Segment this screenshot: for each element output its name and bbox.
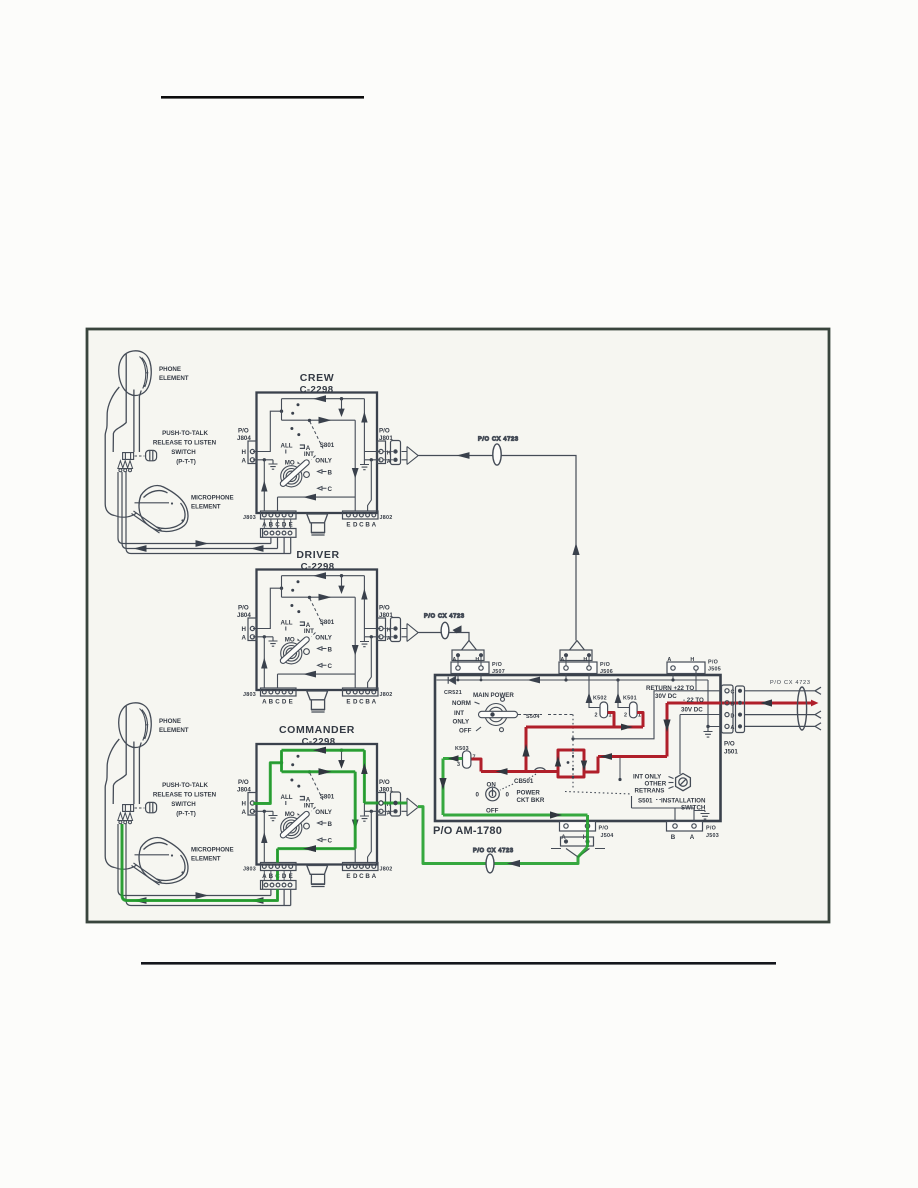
red run K502 K501 xyxy=(526,726,643,729)
svg-text:INT: INT xyxy=(454,710,464,717)
rotary switch S504 xyxy=(479,697,518,731)
svg-text:H: H xyxy=(690,657,694,663)
svg-text:J501: J501 xyxy=(724,749,738,756)
svg-text:30V DC: 30V DC xyxy=(655,693,677,700)
bus wire along top of amplifier xyxy=(437,679,709,681)
amplifier box xyxy=(435,675,721,821)
arrow up commander right riser xyxy=(361,763,367,774)
connector J506 xyxy=(559,662,597,674)
svg-text:3: 3 xyxy=(457,762,460,768)
svg-text:P/O: P/O xyxy=(708,660,718,666)
svg-text:P/O: P/O xyxy=(600,662,610,668)
green riser left xyxy=(442,759,445,816)
svg-text:K502: K502 xyxy=(593,696,607,702)
svg-text:P/O CX 4723: P/O CX 4723 xyxy=(770,680,811,686)
svg-text:RELEASE TO LISTEN: RELEASE TO LISTEN xyxy=(153,791,217,798)
svg-text:A: A xyxy=(560,657,564,663)
S501 riser xyxy=(631,796,633,808)
arrow left K503 stub xyxy=(448,755,459,761)
dots inside contact square xyxy=(567,749,575,779)
green inner right xyxy=(354,772,357,849)
dashed drop from S504 xyxy=(572,715,574,791)
svg-text:J503: J503 xyxy=(706,833,719,839)
svg-text:D: D xyxy=(731,713,735,719)
node J507 taps xyxy=(457,679,460,682)
red contact square xyxy=(558,750,584,777)
arrow right red K run xyxy=(621,724,633,731)
svg-text:B: B xyxy=(731,702,735,708)
wire driver J801 to J507 xyxy=(418,633,470,641)
funnel above J506 xyxy=(570,641,585,651)
svg-text:J507: J507 xyxy=(492,669,505,675)
red square exit xyxy=(584,757,598,773)
cable wires out C xyxy=(745,687,822,694)
green K503 stub xyxy=(443,757,463,760)
arrow down green riser xyxy=(439,778,446,790)
arrow down commander drop xyxy=(338,760,344,768)
svg-text:P/O CX 4723: P/O CX 4723 xyxy=(424,614,465,620)
hex installation switch xyxy=(676,774,691,791)
toggle CB501 xyxy=(486,787,500,801)
green wire H left commander xyxy=(254,763,282,804)
funnel above J507 xyxy=(462,641,477,651)
dotted CB501 to toggle xyxy=(500,784,513,790)
red arrowhead out xyxy=(811,700,819,707)
svg-text:A: A xyxy=(452,657,456,663)
cable CX4723 driver xyxy=(441,622,449,638)
control box commander C-2298 xyxy=(237,744,418,887)
connector J503 xyxy=(667,822,703,832)
wire J501A ground branch xyxy=(708,680,721,727)
svg-text:SWITCH: SWITCH xyxy=(171,449,196,456)
svg-text:P/O AM-1780: P/O AM-1780 xyxy=(433,825,502,837)
ground J501A xyxy=(704,727,713,738)
svg-text:CR521: CR521 xyxy=(444,690,462,696)
svg-text:P/O: P/O xyxy=(599,826,609,832)
arrow left commander green run xyxy=(507,860,520,867)
arrow up K501 xyxy=(615,693,622,704)
breaker CB501 hump xyxy=(481,768,546,772)
K502 coil wire xyxy=(589,674,600,708)
svg-text:(P-T-T): (P-T-T) xyxy=(176,810,196,817)
riser J503 B xyxy=(674,808,676,822)
arrow up red square left xyxy=(555,756,561,767)
ground installation switch xyxy=(694,811,710,820)
svg-text:RELEASE TO LISTEN: RELEASE TO LISTEN xyxy=(153,439,217,446)
arrow left green top xyxy=(313,747,326,754)
svg-text:ON: ON xyxy=(487,782,497,789)
handset commander xyxy=(105,703,188,885)
svg-text:ELEMENT: ELEMENT xyxy=(191,504,221,511)
bracket J506 xyxy=(560,650,592,661)
green wire H right xyxy=(364,802,407,805)
node J505A xyxy=(671,678,674,681)
svg-text:C-2298: C-2298 xyxy=(301,562,335,573)
arrow left driver cable xyxy=(453,625,462,633)
svg-text:C: C xyxy=(731,690,735,696)
red run J501B xyxy=(667,702,744,705)
label S504 + dashes xyxy=(518,714,542,716)
svg-text:CKT BKR: CKT BKR xyxy=(517,797,545,804)
cable CX4723 right xyxy=(797,687,806,730)
redraw commander J801 pins over green xyxy=(379,801,397,805)
dotted S501 gang line xyxy=(565,792,632,795)
cords commander xyxy=(118,824,296,906)
handset crew xyxy=(105,351,188,533)
cords crew xyxy=(118,472,296,554)
svg-text:NORM: NORM xyxy=(452,700,471,707)
arrow left red CB501 run xyxy=(496,768,508,775)
svg-text:H: H xyxy=(583,657,587,663)
svg-text:S501: S501 xyxy=(638,798,653,805)
green cord 2 commander xyxy=(122,824,278,901)
green bottom run xyxy=(443,814,588,817)
svg-text:J505: J505 xyxy=(708,666,721,672)
connector J504 xyxy=(560,822,596,832)
arrow up K502 xyxy=(586,693,593,704)
red riser mid xyxy=(525,727,528,772)
svg-text:DRIVER: DRIVER xyxy=(296,549,339,561)
svg-text:(P-T-T): (P-T-T) xyxy=(176,458,196,465)
green inner top xyxy=(282,770,356,773)
green top run xyxy=(282,749,365,752)
node J506A xyxy=(564,678,567,681)
svg-text:OTHER: OTHER xyxy=(645,781,667,788)
green riser J803 pin C xyxy=(276,849,279,863)
red K501 pin1 hook xyxy=(637,713,643,728)
svg-text:0: 0 xyxy=(476,792,480,799)
svg-text:OFF: OFF xyxy=(486,808,499,815)
control box crew C-2298 xyxy=(237,393,418,536)
svg-text:C-2298: C-2298 xyxy=(302,737,336,748)
cable wires out D xyxy=(745,711,822,718)
cable CX4723 crew xyxy=(493,444,501,465)
svg-text:RETURN +22 TO: RETURN +22 TO xyxy=(646,685,694,692)
re-stroke commander arrows over green xyxy=(303,747,368,852)
dotted link hump to CB501 label xyxy=(528,774,536,779)
wire S501 to J503 xyxy=(632,807,695,809)
svg-text:ELEMENT: ELEMENT xyxy=(191,856,221,863)
cable CX4723 commander xyxy=(486,854,494,873)
arrow left red J501 run xyxy=(600,753,612,760)
svg-text:A: A xyxy=(690,834,695,841)
figure bottom rule xyxy=(141,962,776,965)
connector J505 xyxy=(667,662,705,674)
green funnel leg xyxy=(578,847,588,857)
svg-text:K503: K503 xyxy=(455,746,469,752)
relay K503 xyxy=(463,751,471,768)
red riser J501B xyxy=(666,703,669,757)
svg-text:2: 2 xyxy=(595,713,598,719)
title underline xyxy=(161,96,364,99)
connector J507 xyxy=(451,662,489,674)
arrow down red square right xyxy=(581,761,587,772)
arrow left bus xyxy=(527,677,540,684)
arrow right green inner top xyxy=(319,768,332,775)
svg-text:0: 0 xyxy=(506,792,510,799)
svg-text:INSTALLATION: INSTALLATION xyxy=(661,798,706,805)
red K502 pin1 hook xyxy=(608,713,614,728)
arrow left green inner bottom xyxy=(303,845,316,852)
wire crew J801 to J506 xyxy=(418,456,577,641)
control box driver C-2298 xyxy=(237,570,418,713)
svg-text:P/O: P/O xyxy=(706,826,716,832)
svg-text:H: H xyxy=(475,657,479,663)
connector J501 plug xyxy=(736,686,745,733)
svg-text:S504: S504 xyxy=(526,714,540,720)
svg-text:K501: K501 xyxy=(623,696,637,702)
svg-text:P/O: P/O xyxy=(724,741,735,748)
node K501 tap xyxy=(616,678,619,681)
diagram border frame xyxy=(87,329,829,922)
red K503 pin7 jog xyxy=(472,759,482,772)
svg-text:PHONE: PHONE xyxy=(159,718,181,725)
black arrows on red path xyxy=(496,699,773,774)
svg-text:ONLY: ONLY xyxy=(453,719,470,726)
svg-text:PUSH-TO-TALK: PUSH-TO-TALK xyxy=(162,430,208,437)
arrow up red riser xyxy=(522,744,529,757)
green riser to J803 from handset block xyxy=(276,871,279,880)
svg-text:MICROPHONE: MICROPHONE xyxy=(191,846,234,853)
relay K502 xyxy=(600,702,608,718)
green exit to AM-1780 xyxy=(418,807,578,864)
svg-text:B: B xyxy=(671,834,676,841)
dotted vertical near square xyxy=(619,757,621,779)
svg-text:C-2298: C-2298 xyxy=(300,385,334,396)
svg-text:CREW: CREW xyxy=(300,372,334,384)
svg-text:A: A xyxy=(731,725,735,731)
green notch vertical xyxy=(280,750,283,772)
connector J501 socket xyxy=(722,685,734,733)
svg-text:P/O CX 4723: P/O CX 4723 xyxy=(478,437,519,443)
green right riser xyxy=(363,750,366,803)
arrow right green bottom xyxy=(550,811,562,818)
svg-text:COMMANDER: COMMANDER xyxy=(279,724,355,736)
svg-text:J504: J504 xyxy=(601,833,614,839)
relay K501 xyxy=(630,702,638,718)
svg-text:A: A xyxy=(667,657,671,663)
wire J501D from hex xyxy=(680,715,721,775)
svg-text:POWER: POWER xyxy=(517,790,541,797)
black arrows on green amplifier path xyxy=(439,755,562,818)
svg-text:CB501: CB501 xyxy=(514,778,534,785)
arrow up crew cable riser xyxy=(572,543,579,555)
wire return to J501C xyxy=(573,691,721,739)
cable wires out A xyxy=(745,723,822,730)
diode CR521 xyxy=(448,677,455,684)
svg-text:ELEMENT: ELEMENT xyxy=(159,375,189,382)
svg-text:P/O: P/O xyxy=(492,662,502,668)
node ground A xyxy=(706,725,709,728)
svg-text:PHONE: PHONE xyxy=(159,366,181,373)
svg-text:OFF: OFF xyxy=(459,728,472,735)
svg-text:P/O CX 4723: P/O CX 4723 xyxy=(473,848,514,854)
red run CB501 xyxy=(481,770,558,773)
bracket below J504 xyxy=(561,837,594,846)
svg-text:PUSH-TO-TALK: PUSH-TO-TALK xyxy=(162,782,208,789)
green riser J504 H xyxy=(586,815,589,847)
arrow down red J501B riser xyxy=(663,720,670,733)
svg-text:J506: J506 xyxy=(600,669,613,675)
stubs J506 pins xyxy=(566,655,589,680)
green inner bottom xyxy=(278,847,356,850)
K501 coil wire xyxy=(618,680,630,708)
riser J503 A xyxy=(693,808,695,822)
svg-text:ELEMENT: ELEMENT xyxy=(159,727,189,734)
svg-text:2: 2 xyxy=(624,713,627,719)
node on dashed xyxy=(571,737,574,740)
svg-text:30V DC: 30V DC xyxy=(681,707,703,714)
svg-text:MAIN POWER: MAIN POWER xyxy=(473,692,514,699)
svg-text:SWITCH: SWITCH xyxy=(171,801,196,808)
stubs J505 pins xyxy=(673,670,696,691)
red cable B out xyxy=(744,702,812,705)
svg-text:RETRANS: RETRANS xyxy=(635,788,665,795)
arrow left red cable B xyxy=(760,699,772,706)
svg-text:INT ONLY: INT ONLY xyxy=(633,774,662,781)
svg-text:MICROPHONE: MICROPHONE xyxy=(191,494,234,501)
funnel below J504 xyxy=(551,849,605,858)
red run to J501B riser xyxy=(598,755,667,758)
svg-text:- 22 TO: - 22 TO xyxy=(683,697,704,704)
bracket J507 xyxy=(452,650,484,661)
stubs J507 pins xyxy=(458,655,481,680)
arrow left crew cable xyxy=(457,452,470,459)
